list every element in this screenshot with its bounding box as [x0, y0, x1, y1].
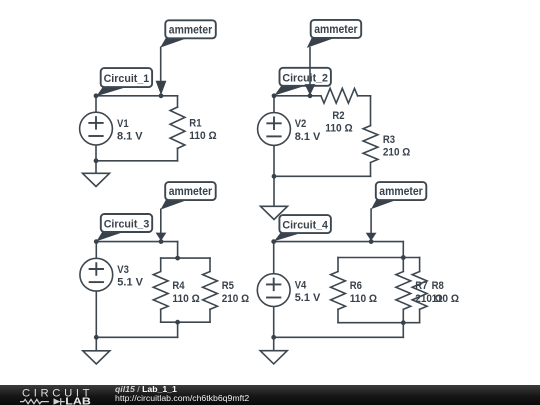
voltage source V4	[257, 274, 290, 307]
svg-text:Circuit_2: Circuit_2	[282, 72, 328, 84]
svg-text:V2: V2	[295, 118, 307, 130]
wire: C3 R4 branch stubs	[160, 258, 162, 322]
wire: C2 right vertical lower	[370, 163, 372, 177]
svg-text:V3: V3	[117, 264, 129, 276]
resistor R2	[321, 88, 358, 103]
wire: C3 top rail	[96, 241, 177, 243]
node: C4 bottom-left junction	[271, 335, 276, 340]
node: C3 top-left junction	[94, 239, 99, 244]
wire: C4 R6 branch stubs	[337, 258, 339, 323]
svg-text:8.1 V: 8.1 V	[117, 130, 143, 142]
wire: C3 parallel bottom rail	[161, 321, 210, 323]
svg-text:ammeter: ammeter	[169, 186, 213, 198]
label: R3 value	[383, 134, 411, 159]
wire: C4 R7 branch stubs	[402, 258, 404, 323]
wire: C4 left vertical lower	[273, 307, 275, 338]
svg-text:110 Ω: 110 Ω	[350, 293, 378, 305]
wire: C1 bottom rail	[96, 160, 178, 162]
svg-text:Circuit_1: Circuit_1	[104, 73, 150, 85]
svg-text:210 Ω: 210 Ω	[383, 147, 411, 159]
ammeter callout: C4	[371, 182, 426, 209]
wire: C4 R8 branch stubs	[419, 258, 421, 323]
label: R2 value	[325, 110, 353, 135]
node: C4 parallel top junction	[401, 255, 406, 260]
svg-text:210 Ω: 210 Ω	[222, 293, 250, 305]
ammeter probe arrow: C1	[156, 47, 167, 95]
node: C2 bottom-left junction	[272, 174, 277, 179]
wire: C2 bottom rail	[274, 175, 371, 177]
svg-text:5.1 V: 5.1 V	[117, 277, 143, 289]
label: V1 value	[117, 118, 143, 143]
ground: C3	[83, 337, 110, 364]
wire: C1 left vertical upper	[95, 96, 97, 113]
callout: Circuit_1	[96, 68, 152, 96]
CircuitLab logo	[0, 385, 110, 405]
resistor R8	[412, 272, 427, 310]
wire: C4 bottom rail	[274, 336, 404, 338]
svg-text:8.1 V: 8.1 V	[295, 131, 321, 143]
label: R7 value	[415, 280, 443, 305]
node: C3 ammeter junction	[159, 239, 164, 244]
node: C1 top-left junction	[94, 93, 99, 98]
wire: C2 top rail left	[274, 95, 321, 97]
node: C4 ammeter junction	[369, 239, 374, 244]
svg-text:110 Ω: 110 Ω	[325, 123, 353, 135]
svg-text:ammeter: ammeter	[169, 24, 213, 36]
wire: C3 left vertical upper	[95, 242, 97, 259]
resistor R5	[203, 272, 218, 310]
voltage source V3	[80, 258, 113, 291]
svg-text:ammeter: ammeter	[314, 24, 358, 36]
ammeter probe arrow: C3	[156, 209, 167, 241]
wire: C1 top rail	[96, 95, 178, 97]
wire: C2 top rail right	[358, 95, 371, 97]
resistor R6	[331, 272, 346, 310]
ammeter probe arrow: C4	[366, 209, 377, 241]
wire: C3 parallel top rail	[161, 257, 210, 259]
resistor R3	[363, 126, 378, 163]
wire: C4 parallel bottom rail	[338, 322, 420, 324]
wire: C1 right vertical upper	[177, 96, 179, 107]
footer bar	[0, 385, 540, 405]
svg-text:5.1 V: 5.1 V	[295, 292, 321, 304]
ground: C2	[261, 176, 288, 219]
label: R6 value	[350, 280, 378, 305]
wire: C1 right vertical lower	[177, 148, 179, 160]
svg-text:110 Ω: 110 Ω	[172, 293, 200, 305]
callout: Circuit_3	[97, 214, 153, 241]
label: R1 value	[189, 118, 217, 143]
wire: C3 feed from parallel bottom rail to bottom rail	[177, 322, 179, 337]
voltage source V2	[258, 113, 291, 146]
voltage source V1	[80, 112, 113, 145]
node: C3 bottom-left junction	[94, 335, 99, 340]
label: R8 value	[432, 280, 460, 305]
wire: C4 feed from top rail to parallel top rail	[402, 242, 404, 258]
wire: C4 left vertical upper	[273, 242, 275, 274]
label: V3 value	[117, 264, 143, 289]
ammeter probe arrow: C2	[305, 48, 316, 96]
svg-text:LAB: LAB	[65, 396, 91, 405]
svg-text:R4: R4	[172, 280, 185, 292]
label: R5 value	[222, 280, 250, 305]
wire: C2 left vertical upper	[273, 96, 275, 113]
wire: C3 left vertical lower	[95, 291, 97, 337]
ground: C4	[260, 337, 287, 364]
resistor R7	[396, 272, 411, 310]
node: C3 parallel bottom junction	[175, 320, 180, 325]
wire: C3 R5 branch stubs	[209, 258, 211, 322]
svg-text:R2: R2	[332, 110, 344, 122]
label: V2 value	[295, 118, 321, 143]
svg-text:V1: V1	[117, 118, 129, 130]
ammeter callout: C3	[161, 182, 216, 210]
wire: C2 left vertical lower	[273, 145, 275, 176]
svg-text:R6: R6	[350, 280, 362, 292]
ammeter callout: C2	[307, 20, 361, 48]
label: V4 value	[295, 279, 321, 304]
node: C4 top-left junction	[271, 239, 276, 244]
wire: C3 bottom rail	[96, 336, 177, 338]
svg-text:R7: R7	[415, 280, 427, 292]
node: C1 ammeter junction	[159, 93, 164, 98]
footer text	[115, 385, 177, 394]
node: C2 ammeter junction	[308, 93, 313, 98]
wire: C4 parallel top rail	[338, 257, 420, 259]
svg-text:V4: V4	[295, 279, 307, 291]
svg-text:R5: R5	[222, 280, 234, 292]
svg-text:R1: R1	[189, 118, 201, 130]
wire: C1 left vertical lower	[95, 145, 97, 161]
resistor R4	[153, 272, 168, 310]
node: C2 top-left junction	[272, 93, 277, 98]
wire: C2 right vertical upper	[370, 96, 372, 126]
wire: C3 feed from top rail to parallel top rail	[177, 242, 179, 258]
callout: Circuit_2	[274, 68, 331, 96]
svg-text:R3: R3	[383, 134, 395, 146]
ground: C1	[83, 161, 110, 187]
wire: C4 top rail	[274, 241, 404, 243]
svg-text:R8: R8	[432, 280, 444, 292]
wire: C4 feed from parallel bottom rail to bottom rail	[402, 323, 404, 338]
node: C1 bottom-left junction	[94, 158, 99, 163]
ammeter callout: C1	[160, 20, 216, 47]
svg-text:Circuit_4: Circuit_4	[282, 220, 328, 232]
svg-text:110 Ω: 110 Ω	[432, 293, 460, 305]
svg-text:Circuit_3: Circuit_3	[104, 219, 150, 231]
callout: Circuit_4	[274, 215, 331, 241]
svg-text:110 Ω: 110 Ω	[189, 130, 217, 142]
node: C4 parallel bottom junction	[401, 320, 406, 325]
label: R4 value	[172, 280, 200, 305]
resistor R1	[170, 107, 185, 148]
svg-text:ammeter: ammeter	[379, 186, 423, 198]
node: C3 parallel top junction	[175, 256, 180, 261]
